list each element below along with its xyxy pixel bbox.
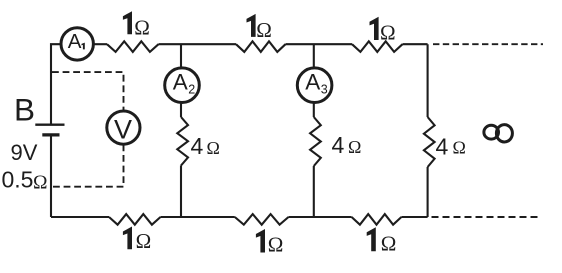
ammeter A3 xyxy=(297,68,332,103)
svg-text:A: A xyxy=(305,69,320,94)
battery B plate long xyxy=(35,124,64,126)
wire A3 to R5 xyxy=(313,103,315,118)
resistor 1ohm bottom-2 xyxy=(235,214,289,225)
wire top-left vertical (battery + to A1) xyxy=(51,44,61,125)
dashed voltmeter lead top xyxy=(52,72,124,111)
wire A2 to R4 xyxy=(180,103,182,118)
wire R-right to bottom rail xyxy=(427,167,429,217)
node A3 branch wire from top rail xyxy=(313,44,315,68)
resistor 4ohm right xyxy=(424,117,435,167)
svg-text:4: 4 xyxy=(191,133,204,159)
resistor 1ohm bottom-1 xyxy=(109,214,161,225)
svg-text:3: 3 xyxy=(321,82,328,96)
svg-text:4: 4 xyxy=(436,133,449,159)
voltmeter V xyxy=(107,111,140,144)
wire R1 to node A2 to R2 xyxy=(159,43,237,45)
value label 1ohm top-2 xyxy=(247,14,256,37)
svg-text:Ω: Ω xyxy=(136,229,152,253)
svg-text:Ω: Ω xyxy=(33,172,48,193)
svg-text:A: A xyxy=(173,69,188,94)
svg-text:Ω: Ω xyxy=(134,15,150,39)
svg-text:A: A xyxy=(68,30,82,53)
ammeter A2 xyxy=(165,68,200,103)
svg-text:Ω: Ω xyxy=(381,231,397,255)
right rail top wire xyxy=(427,44,429,117)
value label 1ohm bottom-1 xyxy=(123,227,132,250)
resistor 1ohm bottom-3 xyxy=(352,214,402,225)
battery B plate short xyxy=(42,133,59,136)
resistor 1ohm top-1 xyxy=(107,41,159,52)
resistor 1ohm top-3 xyxy=(352,41,403,52)
svg-text:V: V xyxy=(114,114,132,144)
bottom rail left segment xyxy=(51,216,109,218)
dashed voltmeter lead bottom xyxy=(52,144,124,186)
bottom rail right segment xyxy=(401,216,427,218)
resistor 1ohm top-2 xyxy=(236,41,286,52)
wire R5 to bottom rail xyxy=(313,166,315,217)
dashed continuation bottom xyxy=(432,216,542,218)
svg-text:B: B xyxy=(14,91,35,127)
svg-text:Ω: Ω xyxy=(207,138,220,158)
infinity symbol xyxy=(484,125,499,139)
wire R2 to node A3 to R3 xyxy=(286,43,353,45)
resistor 4ohm middle-1 xyxy=(177,117,188,166)
svg-text:2: 2 xyxy=(188,82,195,96)
svg-text:Ω: Ω xyxy=(348,137,361,157)
ammeter A1 xyxy=(61,28,93,60)
svg-text:4: 4 xyxy=(332,132,345,158)
svg-text:Ω: Ω xyxy=(453,137,466,157)
value label 1ohm top-3 xyxy=(370,17,379,40)
svg-text:Ω: Ω xyxy=(256,18,272,42)
bottom rail segment 3 xyxy=(289,216,352,218)
value label 1ohm top-1 xyxy=(123,11,132,34)
value label 1ohm bottom-2 xyxy=(256,229,265,253)
wire R4 to bottom rail xyxy=(180,166,182,218)
svg-text:0.5: 0.5 xyxy=(2,167,34,193)
wire battery - to bottom rail xyxy=(50,135,52,217)
svg-text:9V: 9V xyxy=(11,140,38,165)
wire R3 to right rail corner xyxy=(403,43,428,45)
dashed continuation top xyxy=(433,43,543,45)
wire A1 to R1 xyxy=(94,43,108,45)
bottom rail segment 2 xyxy=(161,216,235,218)
svg-text:Ω: Ω xyxy=(380,21,396,45)
node A2 branch wire from top rail xyxy=(180,44,182,68)
value label 1ohm bottom-3 xyxy=(367,227,376,251)
svg-text:Ω: Ω xyxy=(268,232,284,256)
resistor 4ohm middle-2 xyxy=(310,117,321,166)
